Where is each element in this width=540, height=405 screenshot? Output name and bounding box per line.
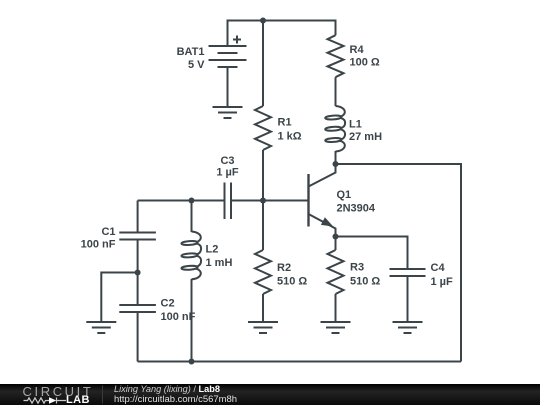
ground (C4) bbox=[393, 322, 423, 333]
transistor Q1 bbox=[309, 164, 336, 237]
ground (battery) bbox=[213, 107, 243, 118]
wire battery to ground bbox=[227, 67, 229, 107]
node top rail junction bbox=[260, 18, 266, 24]
wire mid rail right (C3 to base) bbox=[231, 200, 309, 202]
wire top rail bbox=[228, 21, 336, 47]
inductor L2 bbox=[181, 232, 201, 280]
wire R1 branch top bbox=[262, 21, 264, 107]
wire mid rail left bbox=[138, 200, 225, 202]
wire emitter to R3 bbox=[335, 237, 337, 251]
logo resistor-diode glyph bbox=[24, 398, 67, 404]
footer separator bbox=[102, 386, 104, 404]
svg-text:C3: C3 bbox=[220, 155, 234, 167]
svg-text:100 nF: 100 nF bbox=[161, 311, 196, 323]
wire bottom rail bbox=[138, 361, 461, 363]
svg-text:5 V: 5 V bbox=[188, 59, 205, 71]
node emitter bbox=[333, 234, 339, 240]
wire mid rail to R2 bbox=[262, 201, 264, 251]
node mid rail junction R1/R2 bbox=[260, 198, 266, 204]
svg-text:C4: C4 bbox=[431, 262, 446, 274]
svg-text:R4: R4 bbox=[350, 44, 365, 56]
wire C4 to ground bbox=[407, 276, 409, 322]
wire R4 to L1 bbox=[335, 77, 337, 106]
svg-text:Q1: Q1 bbox=[337, 189, 352, 201]
wire C2 bottom to bottom rail bbox=[137, 312, 139, 362]
wire L1 to collector node bbox=[335, 151, 337, 164]
wire C1 top to mid rail bbox=[137, 201, 139, 233]
transistor Q1 emitter arrow bbox=[321, 217, 333, 226]
resistor R3 bbox=[328, 250, 344, 294]
node C1/C2 ground tap bbox=[135, 270, 141, 276]
svg-text:1 µF: 1 µF bbox=[216, 167, 239, 179]
resistor R4 bbox=[328, 35, 344, 77]
svg-text:LAB: LAB bbox=[66, 394, 90, 405]
ground (R3) bbox=[321, 322, 351, 333]
svg-text:R2: R2 bbox=[277, 262, 291, 274]
wire emitter rail bbox=[336, 237, 408, 270]
svg-text:27 mH: 27 mH bbox=[349, 131, 382, 143]
wire collector rail and right branch bbox=[336, 164, 462, 362]
svg-text:L2: L2 bbox=[206, 244, 219, 256]
wire R2 to ground bbox=[262, 294, 264, 322]
svg-text:1 kΩ: 1 kΩ bbox=[278, 131, 302, 143]
svg-text:1 mH: 1 mH bbox=[206, 257, 233, 269]
ground (tap) bbox=[86, 322, 116, 333]
node collector bbox=[333, 161, 339, 167]
svg-text:100 Ω: 100 Ω bbox=[350, 57, 380, 69]
svg-text:BAT1: BAT1 bbox=[177, 46, 205, 58]
svg-text:1 µF: 1 µF bbox=[431, 276, 454, 288]
svg-text:R3: R3 bbox=[350, 262, 364, 274]
capacitor C1 bbox=[119, 233, 156, 240]
node L2 bottom bbox=[189, 359, 195, 365]
ground (R2) bbox=[248, 322, 278, 333]
svg-text:2N3904: 2N3904 bbox=[337, 203, 376, 215]
capacitor C4 bbox=[390, 269, 426, 276]
svg-text:C1: C1 bbox=[101, 226, 115, 238]
svg-text:510 Ω: 510 Ω bbox=[350, 276, 380, 288]
svg-text:http://circuitlab.com/c567m8h: http://circuitlab.com/c567m8h bbox=[114, 394, 237, 405]
wire R1 to mid rail bbox=[262, 150, 264, 201]
wire R3 to ground bbox=[335, 294, 337, 322]
capacitor C2 bbox=[119, 305, 156, 312]
wire ground tap bbox=[101, 273, 137, 322]
wire L2 top bbox=[191, 201, 193, 233]
svg-text:C2: C2 bbox=[161, 298, 175, 310]
battery BAT1 bbox=[209, 36, 247, 68]
wire L2 bottom bbox=[191, 279, 193, 362]
capacitor C3 bbox=[225, 183, 232, 220]
inductor L1 bbox=[325, 106, 345, 152]
svg-text:510 Ω: 510 Ω bbox=[277, 276, 307, 288]
svg-text:R1: R1 bbox=[278, 117, 292, 129]
svg-text:100 nF: 100 nF bbox=[81, 239, 116, 251]
wire C1 bottom to C2 top bbox=[137, 240, 139, 306]
resistor R2 bbox=[255, 250, 271, 294]
resistor R1 bbox=[255, 106, 271, 150]
svg-text:L1: L1 bbox=[349, 119, 362, 131]
node L2 top bbox=[189, 198, 195, 204]
